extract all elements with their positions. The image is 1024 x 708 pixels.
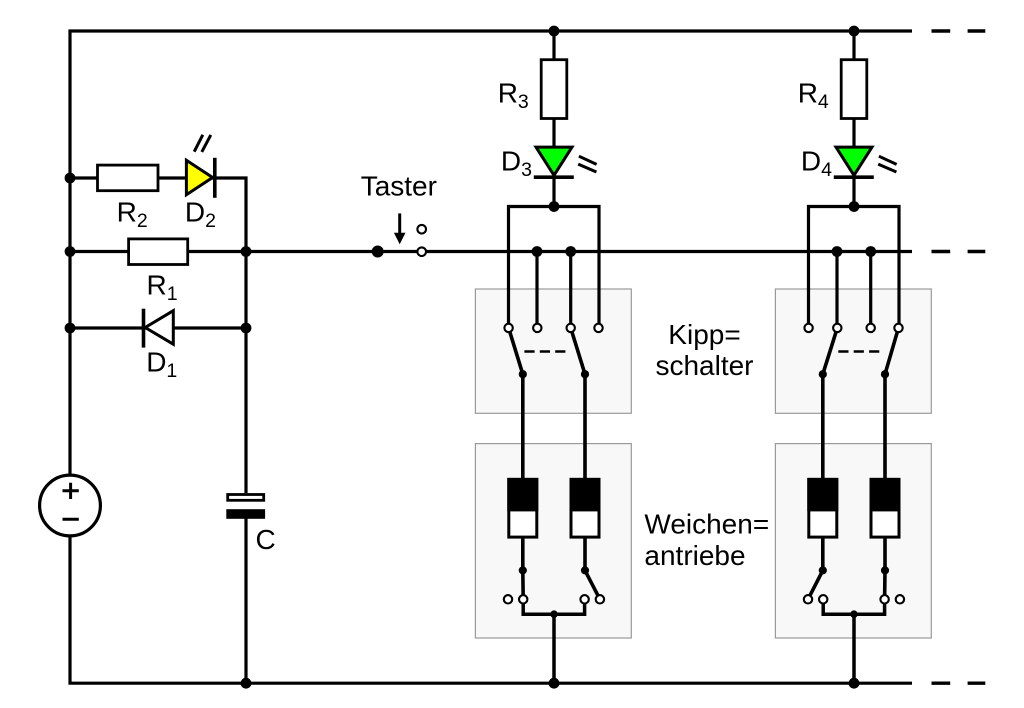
diode D1	[144, 309, 174, 348]
wire LED return bracket	[809, 207, 900, 329]
wire D3 cathode stem	[552, 177, 555, 206]
Taster actuation arrow	[394, 213, 406, 244]
wire switch poles to coils	[523, 374, 585, 479]
coil pole dots	[819, 566, 889, 574]
wire coil 2 bottom stem	[583, 537, 587, 570]
wire bottom bus + left rail lower	[70, 536, 912, 683]
resistor R4	[841, 60, 867, 119]
node middle bus stub left	[832, 246, 843, 257]
wire bus stub left	[835, 252, 838, 329]
solenoid coil 1	[807, 478, 838, 537]
wire middle bus	[70, 250, 912, 253]
Kippschalter pole dots	[519, 370, 589, 378]
end-switch contacts	[804, 595, 904, 603]
wire D4 cathode stem	[852, 177, 855, 206]
node top bus / R4	[849, 26, 860, 37]
node left rail / R2	[65, 173, 76, 184]
wire switch poles to coils	[823, 374, 885, 479]
wire coil 1 bottom stem	[821, 537, 825, 570]
wire bottom bus dashed continuation	[932, 682, 986, 685]
node middle bus stub right	[565, 246, 576, 257]
Kippschalter box	[475, 289, 631, 413]
wire coil 2 bottom stem	[883, 537, 887, 570]
Taster contact (on wire)	[417, 247, 426, 256]
solenoid coil 1	[507, 478, 538, 537]
resistor R2	[98, 165, 159, 191]
LED D4	[834, 147, 874, 177]
wire top bus	[70, 31, 912, 475]
Kippschalter gang dashed link	[524, 350, 569, 353]
capacitor C	[226, 495, 265, 519]
wire bus stub right	[569, 252, 572, 329]
node D4 / bracket	[849, 201, 860, 212]
end-switch arm coil1 (open)	[808, 570, 823, 599]
LED D2	[186, 158, 214, 198]
Kippschalter box	[775, 289, 931, 413]
svg-text:Kipp=: Kipp=	[668, 319, 740, 350]
wire R3 to D3	[552, 119, 555, 148]
wire R2/D2 branch	[70, 176, 246, 493]
node left rail / R1	[65, 246, 76, 257]
node middle bus stub left	[532, 246, 543, 257]
wire R4 top stem	[852, 31, 855, 60]
end-switch contacts	[504, 595, 604, 603]
LED D2 light arrows	[194, 135, 211, 152]
svg-text:Taster: Taster	[361, 170, 437, 201]
end-switch arm coil2 (open)	[585, 570, 600, 599]
node right rail / D1	[241, 323, 252, 334]
LED D3 light arrows	[578, 156, 596, 172]
solenoid coil 2	[570, 478, 601, 537]
svg-text:antriebe: antriebe	[644, 540, 745, 571]
node capacitor / bottom bus	[241, 678, 252, 689]
node bottom bus	[849, 678, 860, 689]
node return bracket center	[550, 610, 558, 618]
end-switch arm coil2 (closed)	[883, 570, 887, 599]
svg-text:C: C	[256, 524, 276, 555]
wire middle bus dashed continuation	[932, 250, 986, 253]
Weichenantrieb box	[475, 444, 631, 638]
svg-text:Weichen=: Weichen=	[644, 508, 769, 539]
node return bracket center	[850, 610, 858, 618]
Kippschalter switch arms	[509, 328, 585, 374]
node Taster junction	[372, 246, 384, 258]
wire return bracket to bottom bus	[523, 599, 584, 683]
resistor R1	[129, 239, 188, 265]
node bottom bus	[549, 678, 560, 689]
wire R3 top stem	[552, 31, 555, 60]
voltage source	[40, 475, 101, 536]
Kippschalter fixed contacts	[504, 324, 602, 332]
node D3 / bracket	[549, 201, 560, 212]
Kippschalter gang dashed link	[838, 350, 884, 353]
Kippschalter fixed contacts	[804, 324, 902, 332]
Kippschalter pole dots	[819, 370, 889, 378]
wire R4 to D4	[852, 119, 855, 148]
wire LED return bracket	[509, 207, 600, 329]
end-switch arm coil1 (closed)	[521, 570, 525, 599]
wire D1 branch	[70, 326, 246, 329]
solenoid coil 2	[870, 478, 901, 537]
Taster contact (moving)	[417, 225, 426, 234]
coil pole dots	[519, 566, 589, 574]
wire bus stub left	[535, 252, 538, 329]
wire return bracket to bottom bus	[823, 599, 884, 683]
LED D3	[534, 147, 574, 177]
node right rail / R1	[241, 246, 252, 257]
wire bus stub right	[869, 252, 872, 329]
node top bus / R3	[549, 26, 560, 37]
LED D4 light arrows	[878, 156, 896, 172]
resistor R3	[541, 60, 567, 119]
node left rail / D1	[65, 323, 76, 334]
node middle bus stub right	[865, 246, 876, 257]
wire top bus dashed continuation	[932, 29, 986, 32]
svg-text:schalter: schalter	[655, 350, 753, 381]
Weichenantrieb box	[775, 444, 931, 638]
wire capacitor to bottom bus	[244, 518, 247, 683]
wire coil 1 bottom stem	[521, 537, 525, 570]
Kippschalter switch arms	[823, 328, 899, 374]
